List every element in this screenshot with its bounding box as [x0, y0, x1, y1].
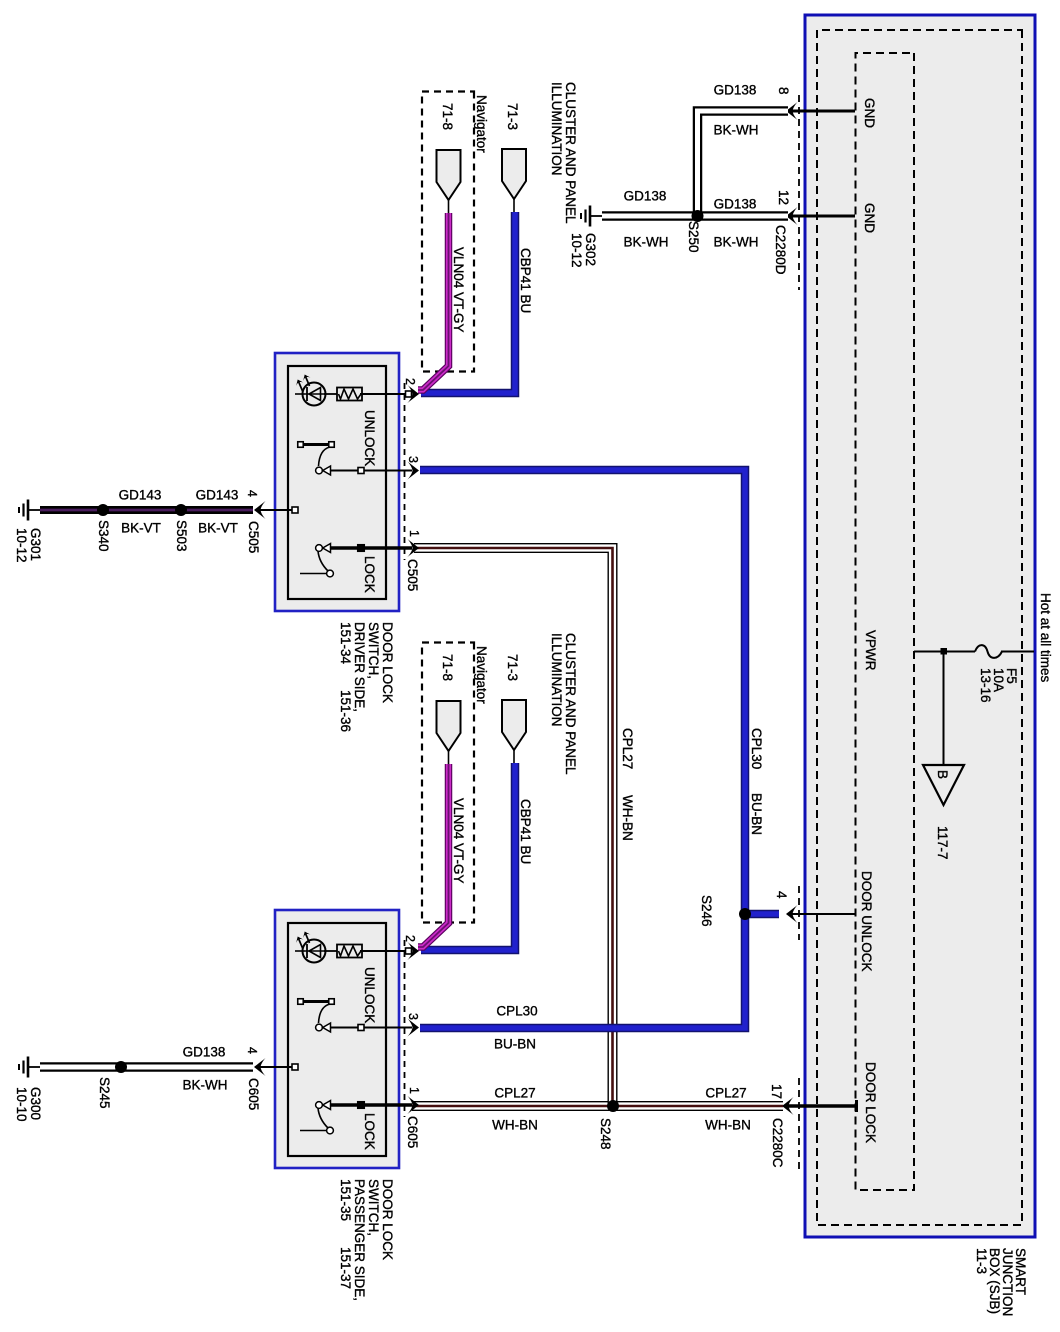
svg-text:12: 12 — [776, 190, 791, 205]
connector dashed line C505 (driver) — [404, 383, 406, 560]
lock pole circle (passenger) — [316, 1102, 323, 1109]
terminal square pin 1 (passenger) — [358, 1102, 365, 1109]
terminal square pin 4 (driver) — [292, 507, 298, 513]
svg-text:BK-VT: BK-VT — [198, 521, 238, 536]
svg-text:CBP41 BU: CBP41 BU — [518, 799, 533, 864]
svg-text:SWITCH,: SWITCH, — [366, 622, 381, 679]
svg-text:G302: G302 — [583, 233, 598, 266]
svg-text:S340: S340 — [96, 520, 111, 552]
wire CPL30 stub to SJB pin4 — [745, 910, 779, 919]
svg-text:C2280C: C2280C — [770, 1118, 785, 1168]
svg-text:1: 1 — [407, 530, 421, 537]
navigator dashed box (passenger) — [422, 643, 474, 923]
wire GD138 BK-WH pin8 to S250 — [698, 111, 789, 216]
svg-text:GD143: GD143 — [119, 488, 162, 503]
arrow at pin 4 C2280C — [786, 905, 798, 923]
unlock bar terminal top (driver) — [329, 442, 335, 448]
lock contact circle (driver) — [327, 570, 334, 577]
svg-text:151-34: 151-34 — [338, 622, 353, 665]
svg-text:CPL27: CPL27 — [620, 728, 635, 769]
door lock switch outline (passenger) — [275, 910, 399, 1168]
svg-text:WH-BN: WH-BN — [492, 1118, 538, 1133]
unlock movable arm arc (passenger) — [319, 1004, 331, 1023]
terminal square pin 1 (driver) — [358, 545, 365, 552]
unlock bar terminal bottom (driver) — [298, 442, 304, 448]
svg-text:WH-BN: WH-BN — [620, 795, 635, 841]
unlock wiper contact (passenger) — [323, 1023, 331, 1032]
LED lamp (driver) — [324, 393, 337, 395]
wire CPL27 WH-BN door-lock run — [412, 1101, 783, 1111]
svg-text:2: 2 — [403, 935, 417, 942]
svg-text:GD143: GD143 — [196, 488, 239, 503]
svg-text:LOCK: LOCK — [362, 556, 377, 593]
svg-text:S250: S250 — [686, 221, 701, 253]
lock fixed contact line (passenger) — [300, 1130, 327, 1132]
arrow at pin 17 C2280C — [782, 1097, 794, 1115]
lock movable arm arc (passenger) — [318, 1108, 328, 1128]
pin 12 stub GND — [792, 215, 856, 218]
splice S245 — [115, 1061, 127, 1073]
pin 17 stub DOOR LOCK — [788, 1104, 858, 1107]
svg-text:10-12: 10-12 — [569, 233, 584, 268]
wire GD143 BK-VT C505 to G301 — [40, 506, 253, 514]
svg-text:BK-WH: BK-WH — [624, 235, 669, 250]
connector C2280C dashed line (door unlock) — [798, 886, 800, 940]
wire VLN04 VT-GY (driver) — [418, 213, 449, 390]
arrow pin 4 (driver) — [254, 501, 266, 519]
arrow pin 3 (passenger) — [408, 1019, 420, 1037]
wire CBP41 BU (driver) — [421, 212, 515, 393]
svg-text:71-8: 71-8 — [440, 103, 455, 130]
arrow at pin 12 C2280D — [786, 207, 798, 225]
splice S248 — [607, 1100, 619, 1112]
switch inner border (passenger) — [288, 923, 386, 1156]
connector dashed line C505 (passenger) — [404, 940, 406, 1117]
pin 3 wire (passenger) — [331, 1027, 412, 1029]
svg-text:BK-WH: BK-WH — [183, 1078, 228, 1093]
svg-text:B: B — [935, 770, 950, 779]
wire GD138 BK-WH pin12 to G302 — [602, 211, 788, 221]
arrow at pin 8 C2280D — [786, 102, 798, 120]
svg-text:1: 1 — [407, 1087, 421, 1094]
unlock wiper contact (driver) — [323, 466, 331, 475]
terminal square pin 3 (passenger) — [358, 1025, 364, 1031]
terminal square pin 4 (passenger) — [292, 1064, 298, 1070]
LED arrows (passenger) — [306, 934, 310, 944]
SJB inner dashed circuitry band — [856, 53, 915, 1190]
svg-text:G300: G300 — [28, 1087, 43, 1120]
svg-text:3: 3 — [406, 456, 420, 463]
svg-text:UNLOCK: UNLOCK — [362, 967, 377, 1023]
lock fixed contact line (driver) — [300, 573, 327, 575]
wire fuse to VPWR node — [914, 651, 975, 653]
svg-text:DOOR LOCK: DOOR LOCK — [380, 1179, 395, 1260]
unlock fixed bar (passenger) — [301, 1000, 332, 1003]
svg-text:17: 17 — [769, 1084, 784, 1099]
connector C2280D dashed line — [798, 95, 800, 290]
svg-text:10-12: 10-12 — [14, 528, 29, 563]
svg-text:BK-VT: BK-VT — [121, 521, 161, 536]
navigator dashed box (driver) — [422, 92, 474, 372]
arrow pin 1 (driver) — [408, 539, 420, 557]
svg-text:GD138: GD138 — [714, 83, 757, 98]
wire VPWR from Hot-at-all-times to fuse — [1001, 651, 1034, 653]
svg-text:DOOR LOCK: DOOR LOCK — [863, 1062, 878, 1143]
svg-text:UNLOCK: UNLOCK — [362, 410, 377, 466]
svg-text:S245: S245 — [97, 1077, 112, 1109]
wire CPL27 WH-BN to driver switch — [414, 548, 613, 1106]
arrow pin 1 (passenger) — [408, 1096, 420, 1114]
switch inner border (driver) — [288, 366, 386, 599]
fuse F5 10A 13-16 — [975, 645, 1002, 658]
svg-text:CPL27: CPL27 — [705, 1086, 746, 1101]
svg-text:Navigator: Navigator — [474, 646, 489, 704]
ground G300 — [29, 1066, 41, 1068]
svg-text:GND: GND — [862, 98, 877, 128]
SJB outer dashed boundary — [817, 30, 1022, 1225]
unlock pole circle (driver) — [316, 467, 323, 474]
splice S340 — [97, 504, 109, 516]
door lock switch outline (driver) — [275, 353, 399, 611]
arrow pin 2 (driver) — [408, 385, 420, 403]
svg-text:LOCK: LOCK — [362, 1113, 377, 1150]
svg-text:Hot at all times: Hot at all times — [1038, 593, 1053, 683]
terminal square pin 2 (driver) — [406, 391, 412, 397]
triangle pointer B 117-7 — [923, 765, 964, 805]
svg-text:117-7: 117-7 — [935, 826, 950, 860]
svg-text:GND: GND — [862, 203, 877, 233]
unlock fixed bar (driver) — [301, 443, 332, 446]
svg-text:71-8: 71-8 — [440, 654, 455, 681]
svg-text:Navigator: Navigator — [474, 95, 489, 153]
svg-text:4: 4 — [774, 891, 789, 899]
svg-text:C505: C505 — [246, 521, 261, 553]
svg-text:VLN04 VT-GY: VLN04 VT-GY — [451, 798, 466, 884]
wire VLN04 VT-GY (passenger) — [418, 764, 449, 947]
lock wiper contact (passenger) — [323, 1101, 331, 1110]
svg-text:BK-WH: BK-WH — [714, 123, 759, 138]
unlock bar terminal bottom (passenger) — [298, 999, 304, 1005]
svg-text:151-36: 151-36 — [338, 690, 353, 732]
wire CPL30 BU-BN main run — [420, 470, 745, 1028]
splice S246 — [739, 908, 751, 920]
pin 1 wire thick (driver) — [331, 546, 413, 550]
svg-text:PASSENGER SIDE,: PASSENGER SIDE, — [352, 1179, 367, 1301]
pin 8 stub GND — [792, 110, 856, 113]
svg-text:GD138: GD138 — [624, 189, 667, 204]
unlock movable arm arc (driver) — [319, 447, 331, 466]
svg-text:S248: S248 — [598, 1118, 613, 1150]
pin 2 wire (driver) — [360, 393, 412, 395]
svg-text:71-3: 71-3 — [505, 654, 520, 681]
svg-text:CLUSTER AND PANEL: CLUSTER AND PANEL — [563, 633, 578, 775]
LED lamp (passenger) — [324, 950, 337, 952]
pin 4 stub DOOR UNLOCK — [792, 913, 857, 915]
pin 4 wire (passenger) — [260, 1066, 293, 1068]
pin 1 wire thick (passenger) — [331, 1103, 413, 1107]
svg-text:ILLUMINATION: ILLUMINATION — [549, 82, 564, 176]
svg-text:4: 4 — [245, 490, 259, 497]
svg-text:C605: C605 — [246, 1078, 261, 1110]
svg-text:GD138: GD138 — [183, 1045, 226, 1060]
arrow pin 4 (passenger) — [254, 1058, 266, 1076]
arrow pin 3 (driver) — [408, 462, 420, 480]
pin 2 wire (passenger) — [360, 950, 412, 952]
svg-text:VPWR: VPWR — [863, 630, 878, 671]
svg-text:S503: S503 — [174, 520, 189, 552]
svg-text:2: 2 — [403, 378, 417, 385]
wire GD138 BK-WH C605 to G300 — [40, 1062, 253, 1072]
svg-text:C2280D: C2280D — [773, 225, 788, 275]
svg-text:C605: C605 — [405, 1116, 420, 1148]
svg-text:DOOR UNLOCK: DOOR UNLOCK — [859, 871, 874, 972]
svg-text:DRIVER SIDE,: DRIVER SIDE, — [352, 622, 367, 712]
svg-text:71-3: 71-3 — [505, 103, 520, 130]
lock wiper contact (driver) — [323, 544, 331, 553]
svg-text:SWITCH,: SWITCH, — [366, 1179, 381, 1236]
svg-text:10-10: 10-10 — [14, 1087, 29, 1122]
lock movable arm arc (driver) — [318, 551, 328, 571]
junction on VPWR wire — [941, 648, 948, 655]
arrow pin 2 (passenger) — [408, 942, 420, 960]
wire CBP41 BU (passenger) — [421, 763, 515, 950]
svg-text:8: 8 — [776, 87, 791, 95]
svg-text:3: 3 — [406, 1013, 420, 1020]
splice S250 — [692, 210, 704, 222]
svg-text:VLN04 VT-GY: VLN04 VT-GY — [451, 247, 466, 333]
svg-text:S246: S246 — [699, 895, 714, 927]
svg-text:CPL30: CPL30 — [749, 728, 764, 769]
lock contact circle (passenger) — [327, 1127, 334, 1134]
terminal square pin 2 (passenger) — [406, 948, 412, 954]
svg-text:CLUSTER AND PANEL: CLUSTER AND PANEL — [563, 82, 578, 224]
wire branch to triangle B — [943, 651, 945, 765]
LED arrows (driver) — [306, 377, 310, 387]
unlock pole circle (passenger) — [316, 1024, 323, 1031]
connector C2280C dashed line (door lock) — [798, 1078, 800, 1172]
svg-text:CPL30: CPL30 — [496, 1004, 537, 1019]
svg-text:CBP41 BU: CBP41 BU — [518, 248, 533, 313]
svg-text:BU-BN: BU-BN — [494, 1037, 536, 1052]
connector 71-8 (passenger) — [437, 701, 461, 751]
svg-text:11-3: 11-3 — [974, 1248, 989, 1274]
ground G302 — [591, 215, 603, 217]
resistor (driver) — [337, 388, 362, 401]
svg-text:BU-BN: BU-BN — [749, 793, 764, 835]
svg-text:ILLUMINATION: ILLUMINATION — [549, 633, 564, 727]
svg-text:G301: G301 — [28, 528, 43, 561]
svg-text:151-37: 151-37 — [338, 1247, 353, 1289]
pin 4 wire (driver) — [260, 509, 293, 511]
svg-text:CPL27: CPL27 — [494, 1086, 535, 1101]
svg-text:BK-WH: BK-WH — [714, 235, 759, 250]
unlock bar terminal top (passenger) — [329, 999, 335, 1005]
svg-text:C505: C505 — [405, 559, 420, 591]
svg-text:DOOR LOCK: DOOR LOCK — [380, 622, 395, 703]
smart junction box SJB outline — [805, 15, 1035, 1237]
lock pole circle (driver) — [316, 545, 323, 552]
svg-text:WH-BN: WH-BN — [705, 1118, 751, 1133]
terminal square pin 3 (driver) — [358, 468, 364, 474]
svg-text:4: 4 — [245, 1047, 259, 1054]
svg-text:13-16: 13-16 — [978, 668, 993, 703]
connector 71-8 (driver) — [437, 150, 461, 200]
connector 71-3 (passenger) — [502, 700, 526, 750]
connector 71-3 (driver) — [502, 149, 526, 199]
ground G301 — [29, 509, 41, 511]
resistor (passenger) — [337, 945, 362, 958]
svg-text:151-35: 151-35 — [338, 1179, 353, 1221]
pin 3 wire (driver) — [331, 470, 412, 472]
splice S503 — [175, 504, 187, 516]
svg-text:GD138: GD138 — [714, 197, 757, 212]
